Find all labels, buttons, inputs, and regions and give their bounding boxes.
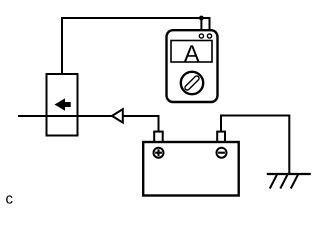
- battery positive post: [154, 132, 163, 143]
- wire: main horizontal feed to battery positive: [18, 116, 159, 133]
- battery positive symbol: [154, 148, 164, 158]
- svg-text:c: c: [6, 191, 14, 208]
- open arrowhead on wire (current probe direction): [112, 109, 123, 122]
- junction dot: [199, 16, 204, 21]
- battery negative post: [217, 132, 225, 143]
- svg-text:A: A: [184, 40, 200, 66]
- ammeter terminal pin right: [207, 34, 211, 38]
- wire: battery negative up and over to ground: [221, 116, 289, 175]
- ammeter terminal pin left: [199, 34, 203, 38]
- ground symbol: [267, 174, 311, 189]
- fuse component body: [47, 74, 78, 136]
- wire: left ammeter terminal drop: [200, 18, 202, 34]
- wire: top run from fuse to ammeter terminals: [62, 18, 210, 74]
- battery body: [143, 142, 239, 196]
- ammeter dial knob: [181, 72, 203, 94]
- ammeter U1 body: [167, 30, 218, 102]
- current direction arrow (filled, pointing left): [55, 98, 71, 110]
- ammeter display window: [171, 41, 212, 63]
- battery negative symbol: [217, 148, 227, 158]
- ammeter knob pointer: [184, 75, 200, 91]
